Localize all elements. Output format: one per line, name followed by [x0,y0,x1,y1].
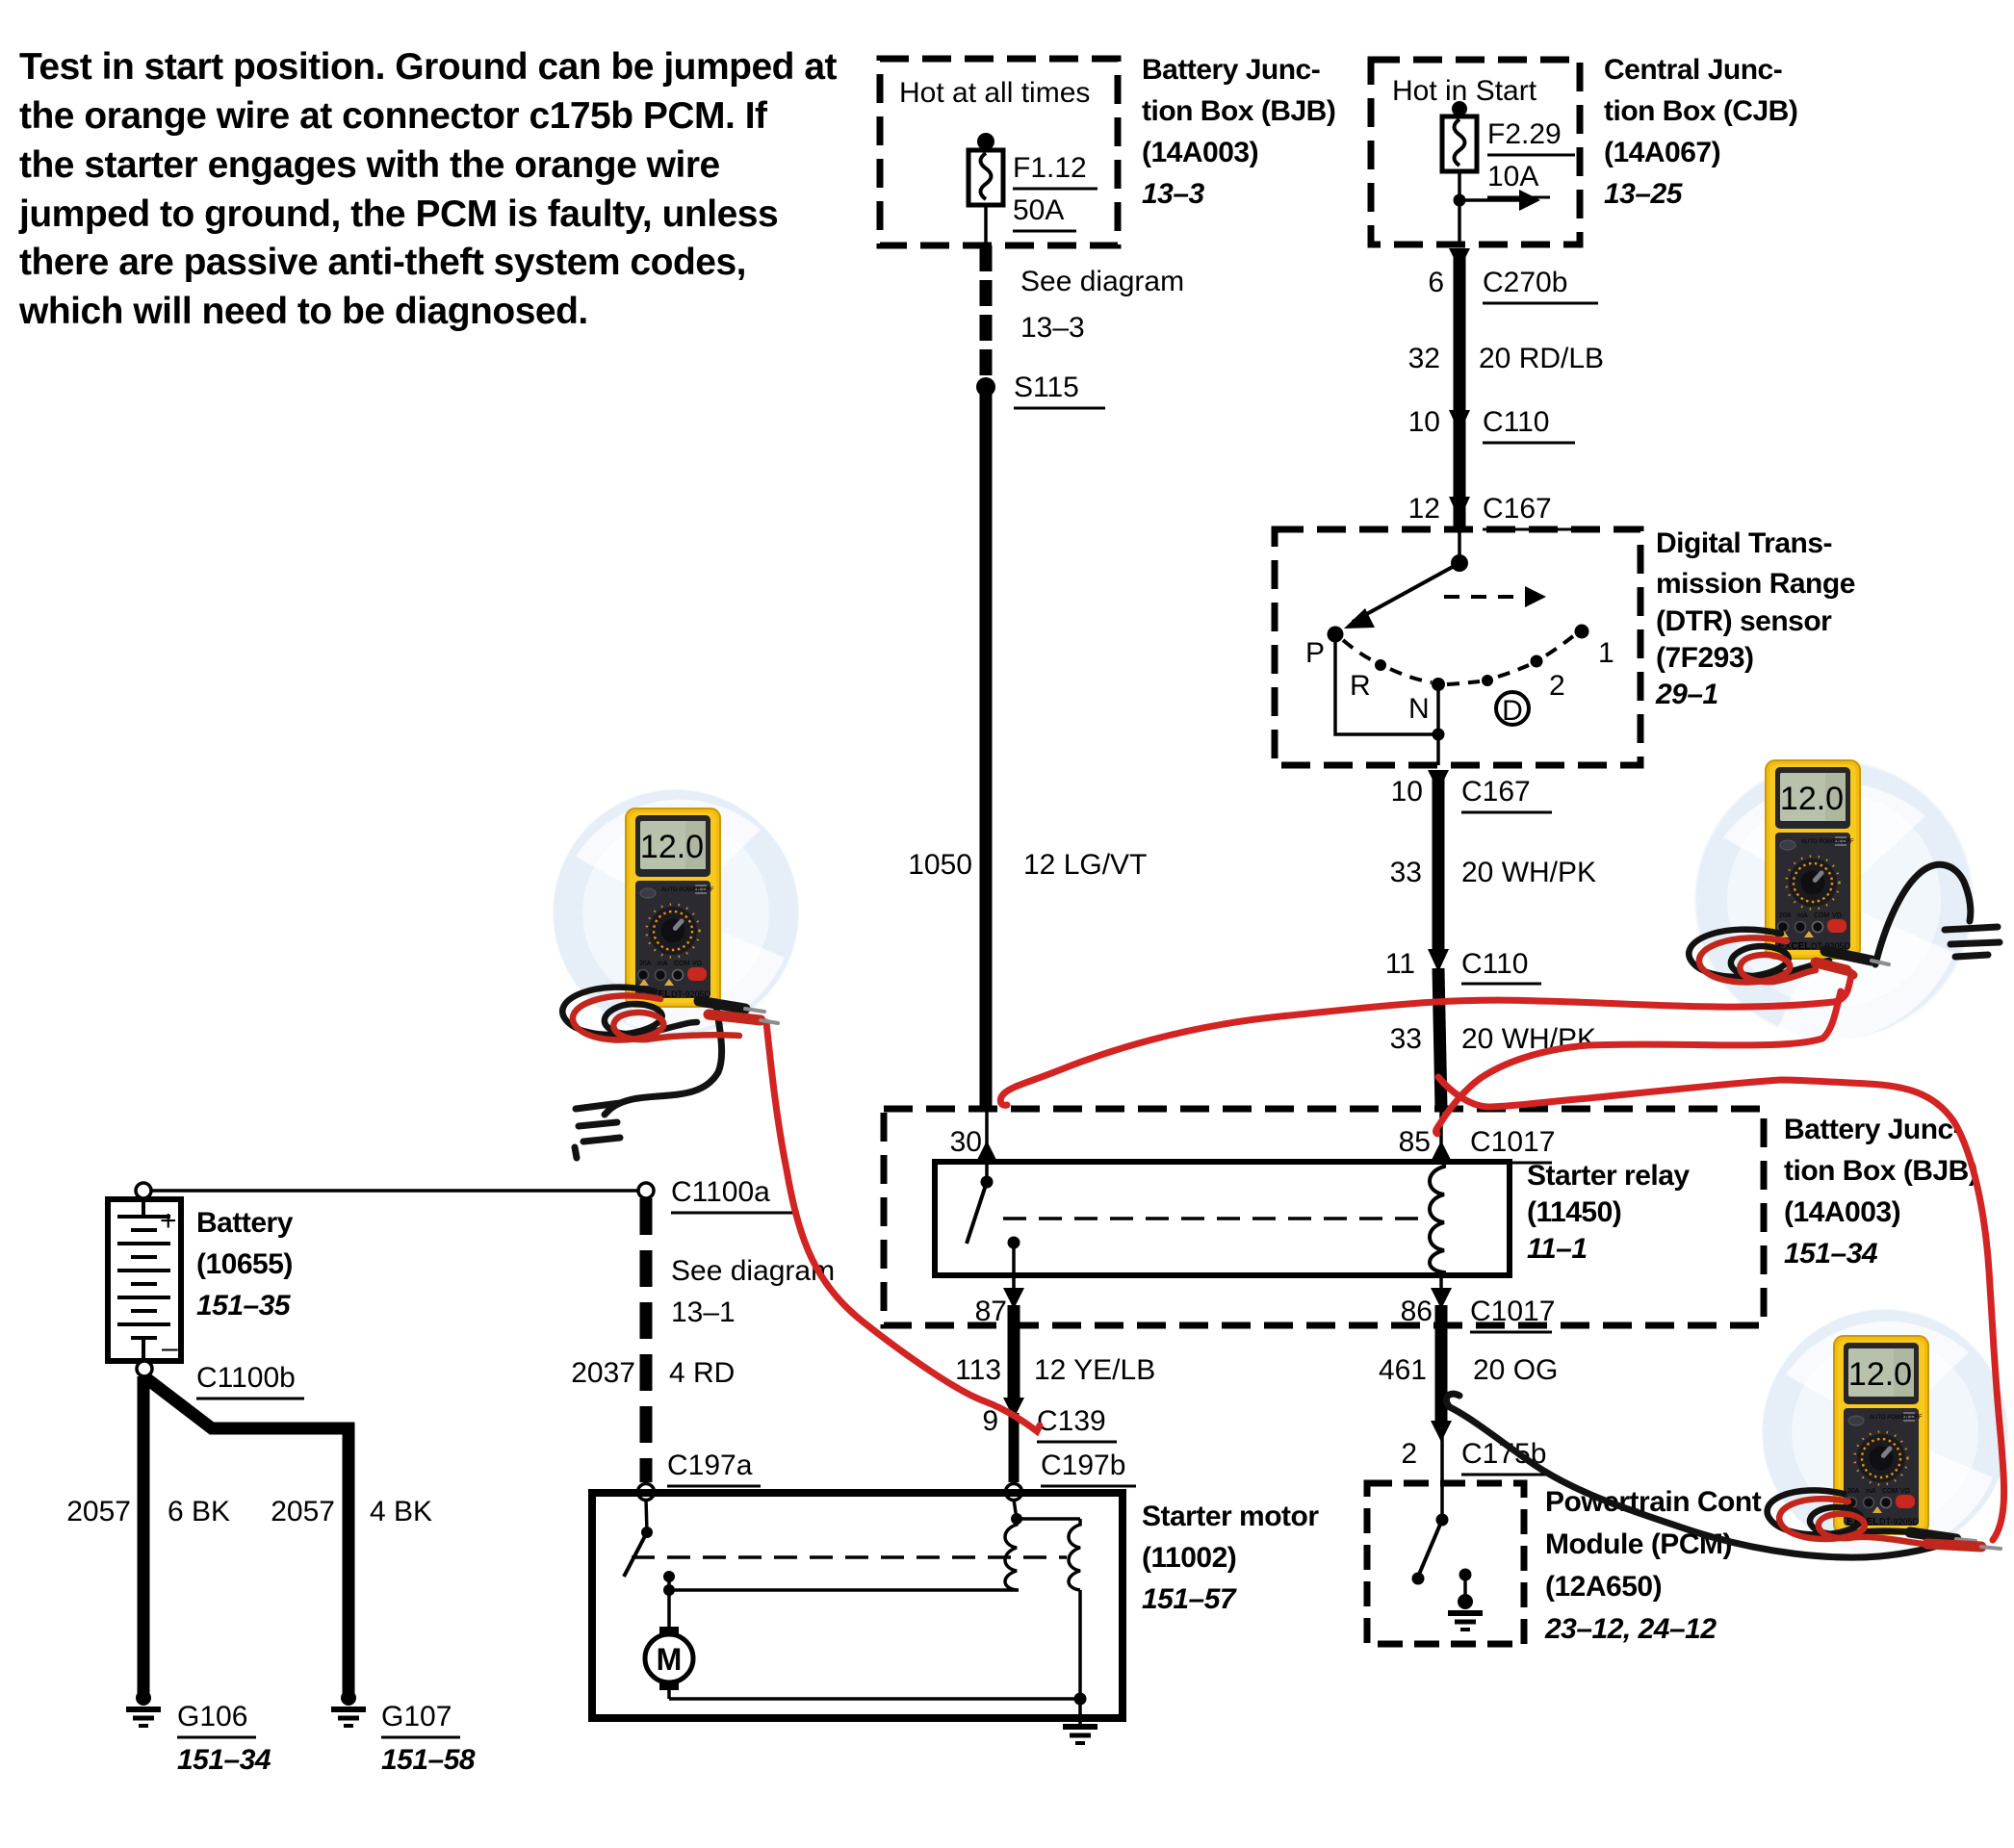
connector C270b arrow [1449,248,1470,269]
wire from switch to solenoid coils [669,1588,1019,1592]
svg-text:mission Range: mission Range [1656,568,1855,600]
svg-text:20 OG: 20 OG [1473,1354,1558,1386]
pin 30 [985,1107,989,1162]
black test lead from top right meter to open ground [1875,864,1971,964]
svg-text:30: 30 [950,1126,982,1158]
battery label text [196,1207,294,1322]
fuse F1.12 50A [968,133,1097,245]
svg-text:P: P [1305,637,1325,669]
left meter lead coil [562,988,739,1040]
svg-text:G107: G107 [381,1701,452,1732]
svg-text:Starter relay: Starter relay [1527,1160,1690,1192]
svg-text:the orange wire at connector c: the orange wire at connector c175b PCM. … [19,95,768,137]
svg-text:Starter motor: Starter motor [1142,1501,1319,1532]
svg-text:(7F293): (7F293) [1656,642,1754,674]
svg-text:2037: 2037 [571,1357,635,1389]
DTR dashed direction arrow [1444,595,1521,599]
svg-text:Central Junc-: Central Junc- [1604,54,1782,86]
svg-text:+: + [160,1205,177,1237]
red test lead from left meter to C139 [766,1022,1040,1431]
top right meter probes [1816,951,1889,975]
wire 33 20 WH/PK lower to starter relay pin 85 [1438,968,1441,1109]
svg-text:20 RD/LB: 20 RD/LB [1479,343,1604,374]
svg-text:11: 11 [1385,948,1415,980]
relay dashed actuator line [1003,1217,1429,1220]
DTR position P [1328,627,1344,643]
PCM label text [1544,1486,1762,1645]
svg-text:50A: 50A [1013,194,1064,226]
PCM ground [1459,1569,1472,1581]
svg-text:C110: C110 [1461,948,1529,980]
svg-text:11–1: 11–1 [1527,1233,1588,1265]
svg-text:Battery: Battery [196,1207,294,1239]
svg-text:the starter engages with the o: the starter engages with the orange wire [19,144,720,186]
red test lead from top right meter to pin 85 [1436,991,1841,1134]
starter motor box [592,1493,1123,1718]
svg-text:tion Box (CJB): tion Box (CJB) [1604,95,1797,127]
svg-text:M: M [657,1642,683,1677]
central junction box (CJB) top dashed box [1371,60,1580,244]
red test lead from top right meter to pin 30 [1000,974,1851,1105]
connector C139 arrow [1003,1398,1024,1419]
watermark behind bottom right multimeter [1762,1309,2008,1555]
DTR sensor dashed box [1275,529,1640,765]
svg-text:D: D [1502,695,1523,727]
svg-text:6 BK: 6 BK [168,1496,230,1527]
svg-text:Test in start position. Ground: Test in start position. Ground can be ju… [19,46,838,88]
svg-text:29–1: 29–1 [1655,679,1718,710]
battery junction box (BJB) top dashed box [880,59,1118,245]
pin 85 [1439,1107,1443,1162]
watermark behind left multimeter [553,789,799,1036]
svg-text:32: 32 [1408,343,1440,374]
svg-text:See diagram: See diagram [1020,266,1184,297]
svg-text:tion Box (BJB): tion Box (BJB) [1784,1155,1977,1187]
top right meter lead coil [1689,930,1829,983]
svg-text:1: 1 [1598,637,1614,669]
powertrain control module (PCM) dashed box [1367,1483,1524,1644]
wire down to C197b [1009,1413,1020,1482]
svg-text:10: 10 [1391,776,1423,808]
svg-text:12 YE/LB: 12 YE/LB [1034,1354,1155,1386]
svg-text:13–25: 13–25 [1604,178,1684,210]
solenoid coil right [1069,1519,1080,1590]
svg-text:R: R [1350,670,1371,702]
svg-text:13–3: 13–3 [1142,178,1205,210]
svg-text:2057: 2057 [271,1496,335,1527]
battery [108,1199,181,1361]
DTR position D (circled) [1496,692,1529,725]
motor bottom wire to ground [669,1697,1080,1701]
motor M [663,1571,675,1582]
svg-text:10A: 10A [1487,161,1538,192]
svg-text:2057: 2057 [66,1496,131,1527]
svg-text:33: 33 [1390,1023,1422,1055]
svg-text:2: 2 [1549,670,1565,702]
wire 2057 6 BK to G106 [138,1376,150,1696]
svg-text:151–34: 151–34 [177,1744,271,1776]
svg-text:151–35: 151–35 [196,1290,292,1322]
svg-text:151–58: 151–58 [381,1744,476,1776]
svg-text:C139: C139 [1037,1405,1106,1437]
svg-text:12 LG/VT: 12 LG/VT [1023,849,1147,881]
ground G106 [126,1690,161,1726]
starter motor dashed actuator line [632,1555,1067,1559]
svg-text:461: 461 [1379,1354,1427,1386]
DTR arc positions [1343,640,1374,661]
black test lead from bottom right meter to 20 OG wire [1446,1394,1956,1557]
wire from F1.12 down (dashed thick) [980,245,993,381]
svg-text:13–1: 13–1 [671,1296,736,1328]
wire 32 20 RD/LB down to DTR [1454,252,1466,529]
bottom right meter probes [1910,1532,2001,1549]
svg-text:C1100a: C1100a [671,1176,770,1208]
wire 461 20 OG [1435,1305,1448,1421]
connector C110 arrow [1449,410,1470,433]
fuse F2.29 10A [1442,101,1575,244]
svg-text:N: N [1408,693,1430,725]
battery junction box (BJB) lower dashed box [884,1109,1764,1325]
starter relay box [935,1162,1510,1275]
relay switch [985,1162,989,1182]
annotation text block [18,46,838,332]
svg-text:Battery Junc-: Battery Junc- [1142,54,1320,86]
svg-text:Digital Trans-: Digital Trans- [1656,527,1832,559]
svg-text:13–3: 13–3 [1020,312,1085,344]
bottom right meter lead coil [1768,1490,1931,1545]
svg-text:C1100b: C1100b [196,1362,296,1394]
svg-text:20 WH/PK: 20 WH/PK [1461,1023,1596,1055]
svg-text:F2.29: F2.29 [1487,118,1562,150]
svg-text:(11450): (11450) [1527,1196,1621,1228]
wire 1050 12 LG/VT down to starter relay pin 30 [980,387,993,1107]
pin 87 [1012,1275,1016,1304]
svg-text:33: 33 [1390,857,1422,888]
svg-text:there are passive anti-theft s: there are passive anti-theft system code… [19,242,746,283]
solenoid coil left [1005,1519,1017,1590]
left multimeter M1 [626,808,720,1007]
top right multimeter M2 [1766,760,1860,959]
svg-text:–: – [162,1332,178,1364]
relay coil [1430,1162,1444,1275]
starter relay label text [1527,1160,1690,1265]
starter motor label text [1142,1501,1319,1615]
svg-text:C197b: C197b [1041,1450,1125,1481]
svg-text:2: 2 [1401,1438,1417,1470]
svg-text:(12A650): (12A650) [1545,1571,1662,1603]
solenoid feed from C197b [1014,1500,1017,1519]
svg-text:F1.12: F1.12 [1013,152,1087,184]
svg-text:jumped to ground, the PCM is f: jumped to ground, the PCM is faulty, unl… [18,193,778,235]
svg-text:S115: S115 [1014,372,1079,403]
svg-text:151–57: 151–57 [1142,1583,1237,1615]
svg-text:C1017: C1017 [1470,1126,1555,1158]
starter motor case ground [1063,1727,1097,1743]
svg-text:20 WH/PK: 20 WH/PK [1461,857,1596,888]
svg-text:(11002): (11002) [1142,1542,1236,1574]
svg-text:86: 86 [1401,1296,1433,1327]
svg-text:(10655): (10655) [196,1248,293,1280]
svg-text:(14A003): (14A003) [1142,137,1258,168]
svg-text:12: 12 [1408,493,1440,525]
svg-text:10: 10 [1408,406,1440,438]
svg-text:113: 113 [955,1354,1001,1386]
splice S115 [976,377,995,397]
battery positive wire to C1100a [151,1189,639,1193]
svg-text:6: 6 [1428,267,1444,298]
svg-text:87: 87 [975,1296,1007,1327]
DTR P to N wiring [1335,634,1438,734]
svg-text:Hot at all times: Hot at all times [899,77,1090,109]
watermark behind top right multimeter [1694,760,1974,1040]
wire 2037 4 RD from C1100a to C197a [640,1198,653,1482]
svg-text:(14A003): (14A003) [1784,1196,1900,1228]
svg-text:G106: G106 [177,1701,247,1732]
red test lead from bottom right meter up to pin 85 crossing [1438,1077,2004,1540]
open-air marks right [1945,927,2000,957]
black test lead from left meter to open ground [605,1007,722,1115]
svg-text:Hot in Start: Hot in Start [1392,75,1537,107]
svg-text:85: 85 [1399,1126,1431,1158]
svg-text:Battery Junc-: Battery Junc- [1784,1114,1962,1145]
svg-text:C197a: C197a [667,1450,753,1481]
connector C175b arrow [1431,1421,1452,1442]
svg-text:C270b: C270b [1483,267,1567,298]
pin 86 [1439,1275,1443,1304]
svg-text:which will need to be diagnose: which will need to be diagnosed. [18,291,588,332]
svg-text:4 RD: 4 RD [669,1357,735,1389]
svg-text:C1017: C1017 [1470,1296,1555,1327]
BJB lower label text [1784,1114,1977,1270]
wire 2057 4 BK to G107 [146,1378,349,1696]
svg-text:151–34: 151–34 [1784,1238,1878,1270]
bottom right multimeter M3 [1834,1336,1928,1534]
starter motor switch [646,1500,647,1532]
connector C1100a [638,1183,654,1198]
svg-text:C110: C110 [1483,406,1550,438]
BJB label text [1142,54,1335,210]
wire 33 20 WH/PK upper [1433,774,1445,951]
svg-text:9: 9 [982,1405,998,1437]
svg-text:C167: C167 [1483,493,1552,525]
ground G107 [331,1690,366,1726]
svg-text:23–12, 24–12: 23–12, 24–12 [1544,1613,1717,1645]
wire 113 12 YE/LB [1008,1305,1020,1398]
svg-text:4 BK: 4 BK [370,1496,432,1527]
connector C110 arrow lower [1428,949,1449,972]
svg-text:C167: C167 [1461,776,1531,808]
CJB label text [1604,54,1797,210]
DTR label text [1655,527,1855,710]
junction and arrow inside CJB [1454,194,1466,207]
PCM switch [1440,1483,1444,1520]
open-air marks left [575,1103,620,1158]
svg-text:tion Box (BJB): tion Box (BJB) [1142,95,1335,127]
connector C167 arrow below DTR [1428,770,1449,791]
DTR selector arm [1458,529,1461,563]
svg-text:(DTR) sensor: (DTR) sensor [1656,605,1832,637]
svg-text:1050: 1050 [908,849,972,881]
left meter probes [699,1001,778,1023]
svg-text:(14A067): (14A067) [1604,137,1720,168]
connector C167 arrow [1449,497,1470,520]
